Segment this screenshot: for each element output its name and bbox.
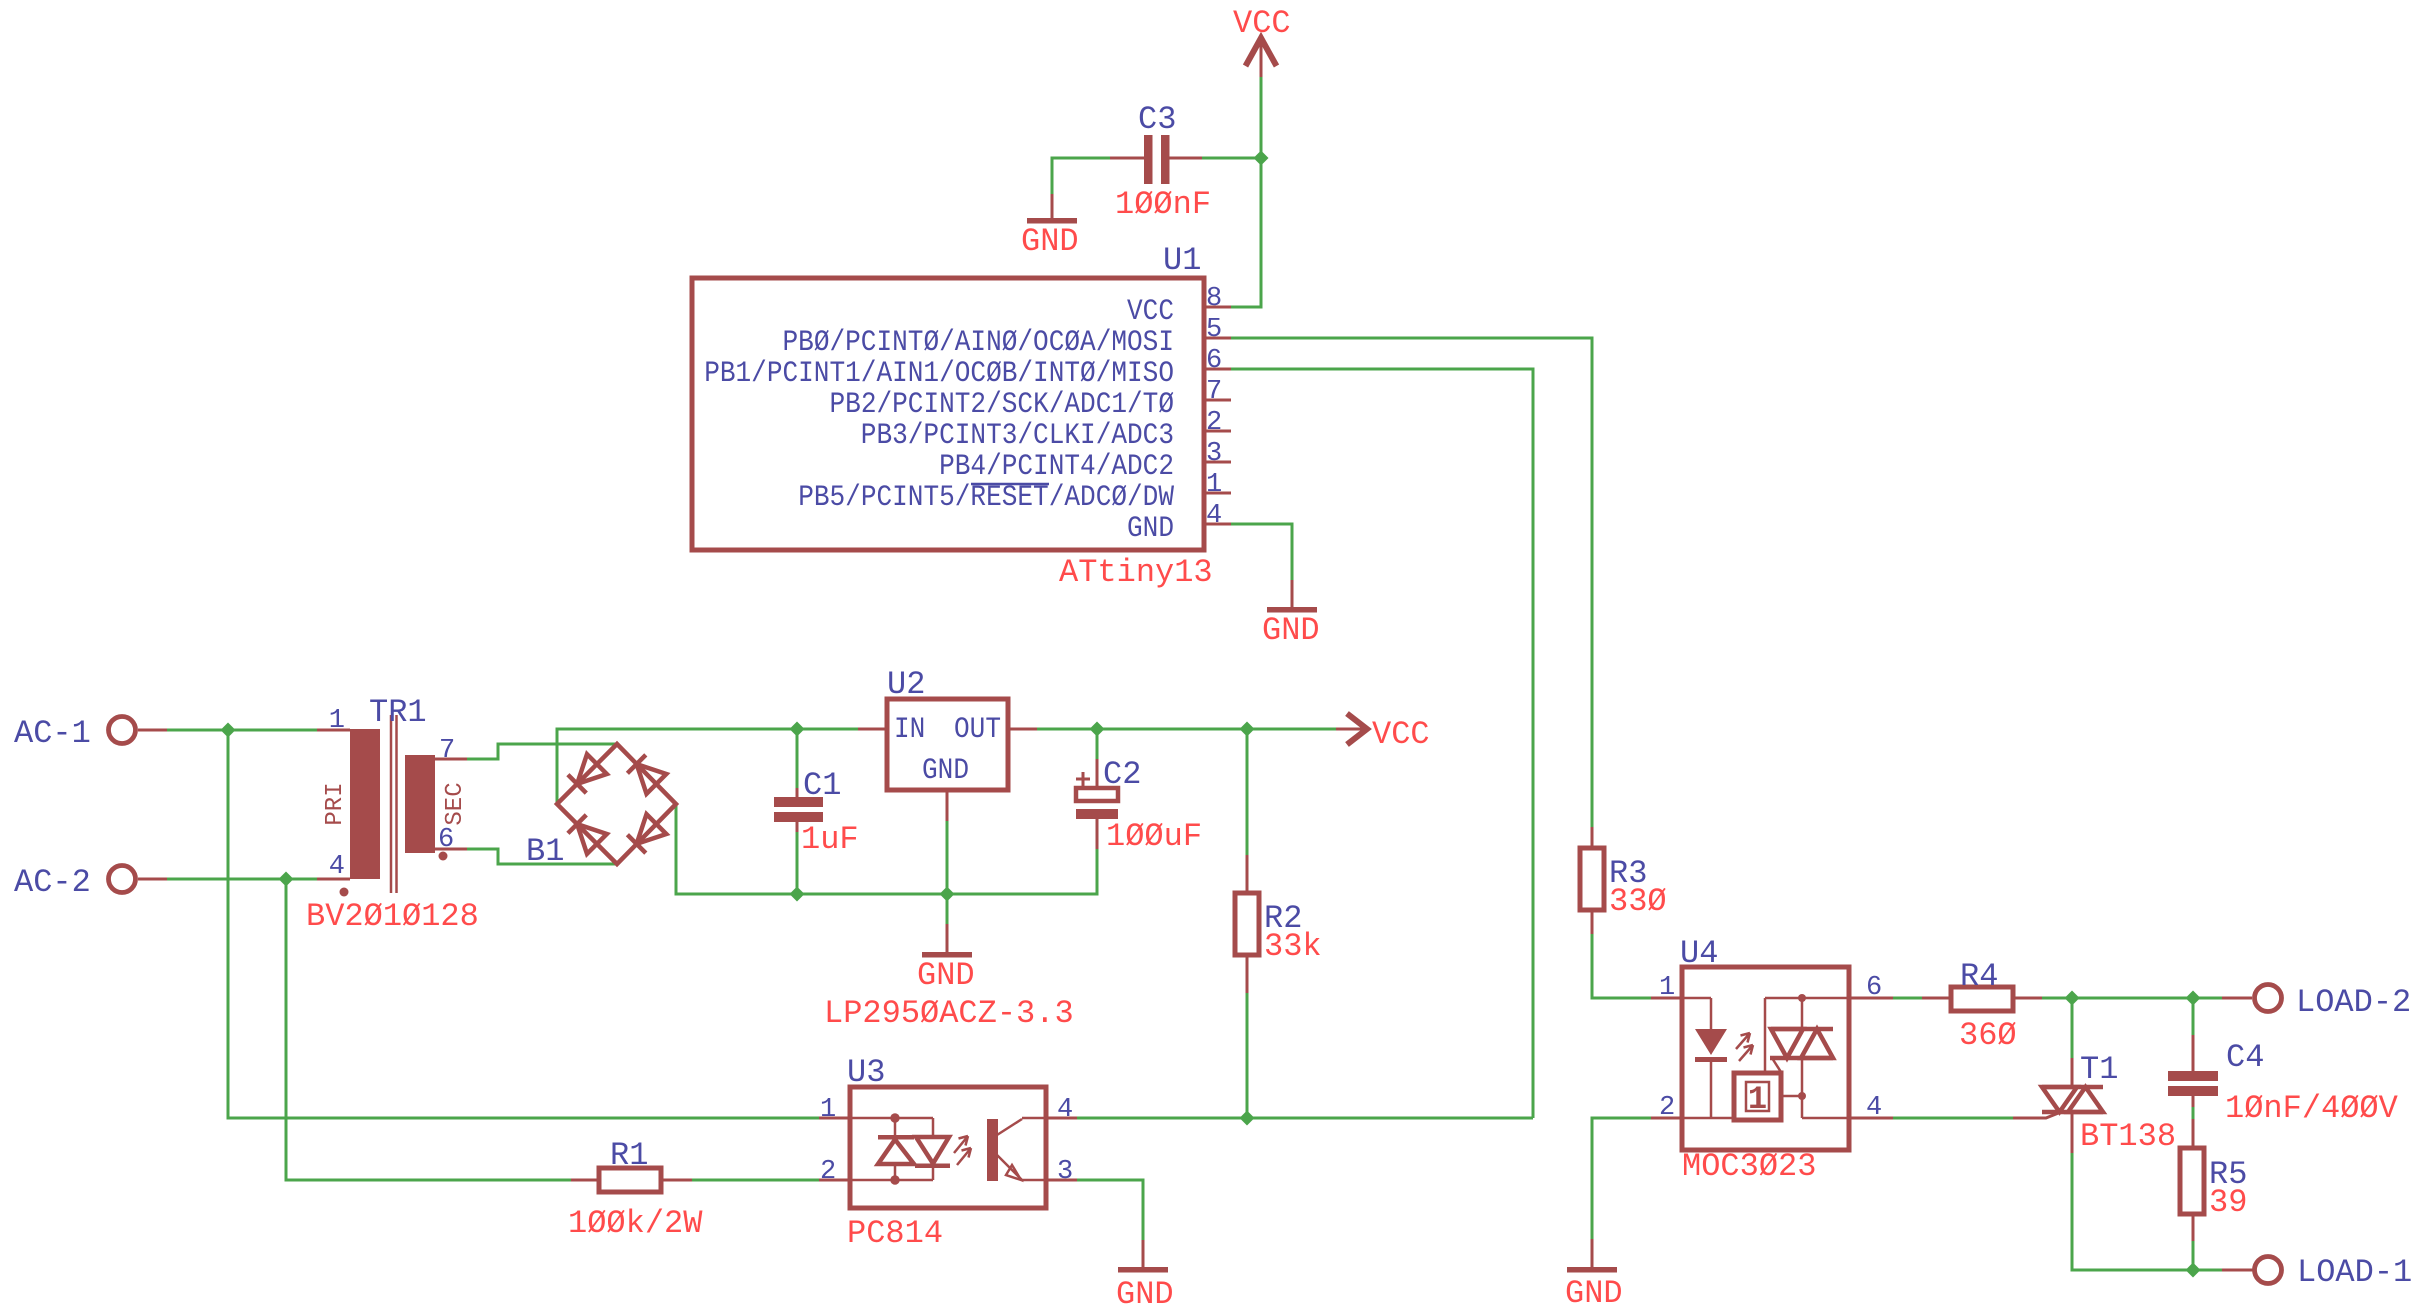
node VCC junction at C3	[1254, 151, 1269, 166]
svg-text:6: 6	[1866, 973, 1882, 1003]
svg-text:3: 3	[1206, 439, 1222, 469]
U1 pin 8	[1204, 306, 1231, 309]
svg-text:1: 1	[329, 706, 345, 736]
optocoupler U3 PC814	[819, 1087, 1077, 1208]
resistor R5	[2180, 1119, 2204, 1241]
wire U4 pin6 to R4	[1893, 997, 1922, 1000]
svg-text:GND: GND	[1116, 1276, 1174, 1310]
svg-text:SEC: SEC	[442, 782, 469, 825]
svg-text:8: 8	[1206, 284, 1222, 314]
svg-text:1: 1	[1206, 470, 1222, 500]
node junction AC-2	[279, 872, 294, 887]
resistor R3	[1580, 827, 1604, 934]
svg-text:U3: U3	[847, 1054, 885, 1091]
svg-text:6: 6	[438, 825, 454, 855]
svg-text:LP295ØACZ-3.3: LP295ØACZ-3.3	[824, 995, 1074, 1032]
pad LOAD-1	[2222, 1257, 2282, 1284]
svg-text:1: 1	[820, 1095, 836, 1125]
svg-text:33Ø: 33Ø	[1609, 883, 1667, 920]
node junction C1 bottom	[790, 887, 805, 902]
wire R3 bottom to U4 pin1	[1592, 934, 1651, 998]
wire C1 top lead	[796, 729, 799, 788]
supply VCC symbol right of U2	[1336, 714, 1367, 745]
svg-text:C3: C3	[1138, 101, 1176, 138]
diode bridge B1	[557, 744, 676, 864]
U1 pin names	[704, 294, 1174, 545]
svg-text:U4: U4	[1680, 935, 1718, 972]
ground symbol at U2	[922, 924, 972, 958]
svg-text:LOAD-2: LOAD-2	[2296, 984, 2411, 1021]
capacitor C2 polarized	[1076, 759, 1118, 849]
svg-text:TR1: TR1	[369, 694, 427, 731]
svg-text:BT138: BT138	[2080, 1118, 2176, 1155]
wire VCC net top: arrow stem to junction	[1260, 69, 1263, 158]
svg-text:U1: U1	[1163, 242, 1201, 279]
wire T1 MT1 down to LOAD-1 bus	[2072, 1153, 2222, 1270]
capacitor C4	[2168, 1035, 2218, 1107]
svg-text:2: 2	[1206, 408, 1222, 438]
node junction C4 top	[2186, 991, 2201, 1006]
svg-text:IN: IN	[894, 712, 925, 746]
U3 pin numbers	[820, 1095, 1073, 1187]
voltage regulator U2 box	[858, 699, 1037, 821]
svg-text:VCC: VCC	[1372, 716, 1430, 753]
svg-text:ATtiny13: ATtiny13	[1059, 554, 1213, 591]
transformer TR1	[317, 715, 467, 897]
wire TR1 pin7 to bridge top corner	[467, 744, 617, 759]
svg-text:VCC: VCC	[1233, 5, 1291, 42]
wire T1 MT2 lead	[2071, 998, 2074, 1058]
svg-text:BV2Ø1Ø128: BV2Ø1Ø128	[306, 898, 479, 935]
svg-text:VCC: VCC	[1127, 294, 1174, 328]
ground symbol at C3	[1027, 194, 1077, 224]
wire net PB1 pin6 down	[1231, 369, 1533, 1118]
wire U2 GND pin to bus and down to ground	[946, 821, 949, 924]
svg-text:4: 4	[1866, 1093, 1882, 1123]
node junction AC-1	[221, 723, 236, 738]
svg-text:1ØØuF: 1ØØuF	[1106, 818, 1202, 855]
wire net AC-2: pad to TR1 pin4	[167, 878, 317, 881]
wire C4 to R5 gap	[2192, 1107, 2195, 1119]
svg-text:39: 39	[2209, 1184, 2247, 1221]
resistor R1	[571, 1168, 692, 1192]
svg-text:1uF: 1uF	[801, 821, 859, 858]
svg-text:R1: R1	[610, 1137, 648, 1174]
wire TR1 pin6 to bridge bottom corner	[467, 849, 617, 864]
node junction R5/LOAD-1	[2186, 1263, 2201, 1278]
U2 pin names	[894, 712, 1001, 787]
resistor R4	[1922, 987, 2042, 1011]
svg-text:C2: C2	[1103, 756, 1141, 793]
U1 pin 3	[1204, 461, 1231, 464]
svg-text:OUT: OUT	[954, 712, 1001, 746]
U1 pin 4	[1204, 523, 1231, 526]
wire net PB0 pin5 to R3	[1231, 338, 1592, 827]
svg-text:GND: GND	[1021, 223, 1079, 260]
triac T1 BT138	[1893, 1058, 2103, 1153]
svg-text:C1: C1	[803, 767, 841, 804]
wire U4 pin2 to ground	[1592, 1118, 1651, 1239]
resistor R2	[1235, 855, 1259, 993]
pad AC-1	[109, 717, 168, 744]
node junction T1 top	[2065, 991, 2080, 1006]
wire net AC-1: drop to U3 pin1	[228, 730, 819, 1118]
svg-text:2: 2	[1659, 1093, 1675, 1123]
ground symbol at U3 pin3	[1118, 1240, 1168, 1273]
U1 pin numbers	[1206, 284, 1222, 531]
svg-text:7: 7	[439, 736, 455, 766]
U1 pin 6	[1204, 368, 1231, 371]
wire DC- bus: bridge right corner down, to C2 bottom	[676, 804, 1097, 894]
svg-text:7: 7	[1206, 377, 1222, 407]
svg-text:GND: GND	[917, 957, 975, 994]
wire R4 to LOAD-2	[2042, 997, 2222, 1000]
svg-text:B1: B1	[526, 833, 564, 870]
wire net GND: U1 pin4 to ground	[1231, 524, 1292, 580]
wire C1 bottom lead	[796, 832, 799, 894]
svg-text:GND: GND	[1127, 511, 1174, 545]
svg-text:33k: 33k	[1264, 928, 1322, 965]
wire C2 top lead	[1096, 729, 1099, 789]
svg-text:LOAD-1: LOAD-1	[2297, 1254, 2412, 1291]
svg-text:GND: GND	[1262, 612, 1320, 649]
TR1 pin numbers	[329, 706, 455, 882]
svg-text:U2: U2	[887, 666, 925, 703]
wire DC+ bus: bridge left corner up and right to U2 IN	[557, 729, 858, 804]
U1 pin 5	[1204, 337, 1231, 340]
op-amp U1 ATtiny13 box	[692, 278, 1204, 550]
svg-text:PB3/PCINT3/CLKI/ADC3: PB3/PCINT3/CLKI/ADC3	[861, 418, 1174, 452]
svg-text:C4: C4	[2226, 1039, 2264, 1076]
wire R2 top lead	[1246, 729, 1249, 855]
pad AC-2	[109, 866, 168, 893]
node junction U2 GND	[940, 887, 955, 902]
wire net PB1: R2 bottom drop	[1246, 993, 1249, 1118]
node junction R2 top	[1240, 722, 1255, 737]
svg-text:5: 5	[1206, 315, 1222, 345]
U1 pin 2	[1204, 430, 1231, 433]
svg-text:6: 6	[1206, 346, 1222, 376]
svg-text:PB1/PCINT1/AIN1/OCØB/INTØ/MISO: PB1/PCINT1/AIN1/OCØB/INTØ/MISO	[704, 356, 1174, 390]
wire VCC net top: junction down to U1 pin 8	[1231, 158, 1261, 307]
svg-text:1ØØk/2W: 1ØØk/2W	[568, 1205, 703, 1242]
svg-text:PBØ/PCINTØ/AINØ/OCØA/MOSI: PBØ/PCINTØ/AINØ/OCØA/MOSI	[783, 325, 1175, 359]
ground symbol at U4 pin2	[1567, 1239, 1617, 1273]
svg-text:AC-2: AC-2	[14, 864, 91, 901]
svg-text:MOC3Ø23: MOC3Ø23	[1682, 1148, 1816, 1185]
node junction C1 top	[790, 722, 805, 737]
U1 pin 7	[1204, 399, 1231, 402]
wire net AC-2: drop to R1	[286, 879, 571, 1180]
svg-text:1ØØnF: 1ØØnF	[1115, 186, 1211, 223]
wire net PB1: U3 pin4 horizontal	[1075, 1117, 1533, 1120]
supply VCC symbol top	[1246, 38, 1277, 77]
capacitor C1	[774, 788, 823, 832]
svg-text:GND: GND	[922, 753, 969, 787]
svg-text:T1: T1	[2080, 1051, 2118, 1088]
svg-text:1ØnF/4ØØV: 1ØnF/4ØØV	[2225, 1090, 2399, 1127]
capacitor C3	[1110, 135, 1202, 184]
wire DC+ bus: U2 OUT to VCC arrow	[1037, 728, 1336, 731]
pad LOAD-2	[2222, 985, 2282, 1012]
wire GND net: C3 left lead to ground	[1052, 158, 1110, 194]
svg-text:36Ø: 36Ø	[1959, 1017, 2017, 1054]
opto-triac U4 MOC3023	[1651, 967, 1893, 1150]
svg-text:PB4/PCINT4/ADC2: PB4/PCINT4/ADC2	[939, 449, 1174, 483]
svg-text:4: 4	[329, 852, 345, 882]
svg-text:AC-1: AC-1	[14, 715, 91, 752]
wire net AC-1: pad to TR1 pin1	[167, 729, 317, 732]
wire C4 top lead	[2192, 998, 2195, 1035]
wire U3 pin3 to ground	[1077, 1180, 1143, 1240]
svg-text:3: 3	[1057, 1157, 1073, 1187]
svg-text:1: 1	[1659, 973, 1675, 1003]
wire R5 bottom lead	[2192, 1241, 2195, 1270]
svg-text:PC814: PC814	[847, 1215, 943, 1252]
svg-text:4: 4	[1057, 1095, 1073, 1125]
svg-text:1: 1	[1748, 1081, 1767, 1118]
node junction C2 top	[1090, 722, 1105, 737]
svg-text:2: 2	[820, 1157, 836, 1187]
wire R1 right to U3 pin2	[692, 1179, 819, 1182]
svg-text:4: 4	[1206, 501, 1222, 531]
svg-text:GND: GND	[1565, 1275, 1623, 1310]
svg-text:PRI: PRI	[322, 782, 349, 825]
U4 pin numbers	[1659, 973, 1882, 1123]
node junction R2/U3 pin4	[1240, 1111, 1255, 1126]
svg-text:PB2/PCINT2/SCK/ADC1/TØ: PB2/PCINT2/SCK/ADC1/TØ	[830, 387, 1175, 421]
wire VCC net top: C3 to junction	[1202, 157, 1261, 160]
svg-text:R4: R4	[1960, 958, 1998, 995]
ground symbol at U1 pin 4	[1267, 580, 1317, 613]
U1 pin 1	[1204, 492, 1231, 495]
